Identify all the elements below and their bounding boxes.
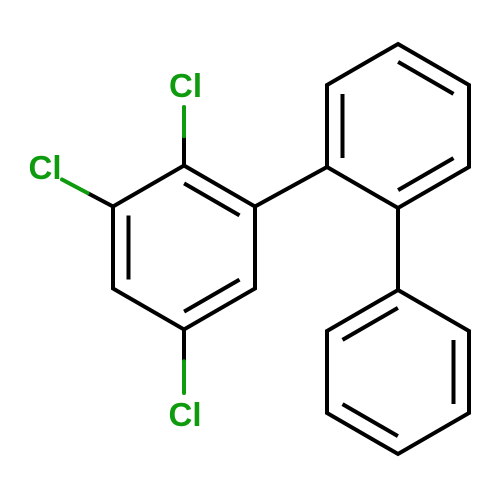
bond C5-Cl bottom (carbon half, black) [182,330,186,362]
double bond A C1=C2 inner line [184,183,239,215]
bond ring A to ring B (biaryl single bond) [255,167,327,207]
benzene ring B (central phenyl, top right) outline [327,44,469,208]
double bond C inner line bottom-left [343,404,398,436]
bond C2-Cl top (chlorine half, green) [182,107,186,136]
double bond B inner line top-right [398,62,453,94]
double bond A C5=C6 inner line [127,216,131,280]
double bond A C3=C4 inner line [184,280,239,312]
bond C2-Cl top (carbon half, black) [182,136,186,165]
double bond B inner line bottom-right [398,158,453,190]
svg-text:Cl: Cl [169,396,202,433]
double bond C inner line top-left [343,308,398,340]
bond C3-Cl left (chlorine half, green) [62,180,88,194]
bond C3-Cl left (carbon half, black) [88,193,114,207]
benzene ring A (trichlorophenyl) outline [113,166,255,330]
svg-text:Cl: Cl [29,149,62,186]
bond C5-Cl bottom (chlorine half, green) [182,361,186,393]
double bond B inner line left [341,94,345,158]
double bond C inner line right [452,340,456,404]
svg-text:Cl: Cl [169,67,202,104]
bond ring B to ring C (biaryl single bond) [396,208,400,290]
benzene ring C (terminal phenyl, bottom right) outline [327,290,469,454]
